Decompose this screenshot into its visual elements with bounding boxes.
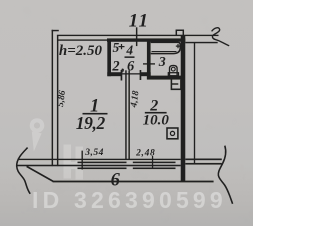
wall right band [181,36,186,182]
break line left [17,148,31,194]
toilet base [168,73,178,76]
balcony bottom line [53,181,214,183]
wall bath left [147,41,151,79]
wall bath bottom band [147,76,181,80]
door jamb 1 [121,70,123,81]
watermark letter fragment [64,145,84,180]
wall hall bottom left band [107,72,122,76]
watermark pin logo [30,118,45,151]
leader dash room3 [143,63,155,64]
wall left top step [52,30,59,32]
wall hall bottom right band [141,72,151,76]
toilet bowl [170,65,178,75]
door jamb 2 [140,70,142,80]
bathtub [151,42,181,53]
stove square [167,128,178,139]
fraction bar room4 [125,56,135,58]
leader line for 11 [136,27,138,46]
wall bottom line2 [18,165,181,167]
bathtub inner bottom line [152,51,177,53]
wall room1 top inner line [58,39,109,40]
wall bottom line1 [18,159,181,160]
wall top right lower line [185,42,217,44]
dimension tick window1 [82,151,83,170]
fraction bar room2 [145,112,167,114]
bathtub tap cross [176,44,180,48]
fraction bar room1 [83,113,108,115]
balcony diagonal [27,166,54,181]
toilet circle [171,67,175,71]
stove circle [170,131,174,135]
wall hall left [107,39,111,76]
door threshold [122,73,140,74]
wall left inner line [57,35,59,166]
wall right extension line1 [185,159,222,161]
niche bump top [176,30,183,35]
wall top thin line A [57,35,219,36]
wall rooms 1-2 line1 [125,70,127,159]
dimension tick window2 [152,156,153,169]
sink [171,79,181,89]
window 1 lines [78,162,127,164]
wall right extension line2 [185,163,222,165]
break squiggle top right [212,28,230,46]
window 2 lines [133,162,176,164]
walls: fills [18,27,222,182]
wall top thick band [107,38,185,41]
closet cross mark after 5 [119,44,125,49]
neighbour wall vertical line [194,43,195,164]
wall rooms 1-2 line2 [128,70,130,159]
break line bottom right [218,146,232,204]
wall left outer line [52,30,54,166]
